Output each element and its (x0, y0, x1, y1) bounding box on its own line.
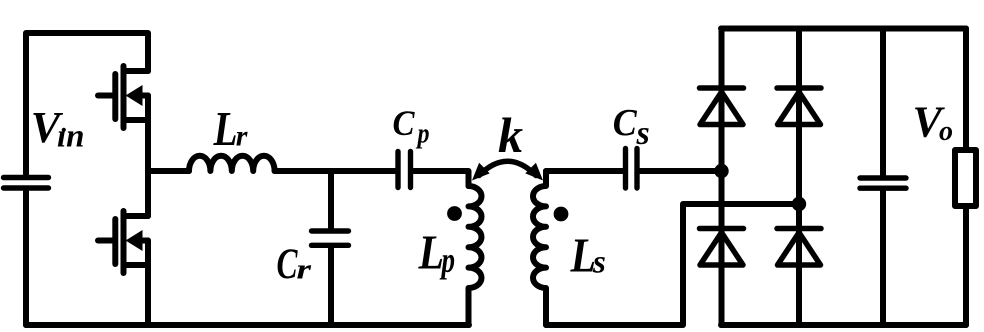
polarity dot Ls (554, 207, 569, 222)
label Lr (213, 101, 248, 156)
diode D2 (777, 88, 821, 125)
wire: Vin positive rail to half-bridge top (26, 33, 148, 174)
capacitor Co plates (860, 178, 906, 188)
svg-text:r: r (297, 254, 312, 286)
svg-text:ın: ın (57, 119, 85, 155)
wire: switch node to Lr (148, 168, 189, 174)
svg-text:C: C (613, 102, 638, 144)
junction dot node A (714, 164, 728, 178)
inductor Lp (primary winding) (469, 186, 482, 325)
capacitor Cs plates (626, 149, 638, 189)
label Cp (393, 103, 430, 150)
wire: rectifier top rail (721, 26, 966, 32)
wire: Vin negative to bottom rail (23, 191, 29, 325)
transistor Q2 (low side) (98, 211, 148, 273)
inductor Ls (secondary winding) (533, 171, 546, 325)
wire: Cp to Lp (413, 171, 469, 186)
svg-text:k: k (498, 107, 523, 163)
wire: output capacitor bottom lead (880, 191, 886, 325)
wire: load top lead (963, 29, 969, 151)
wire: diode leg 1 (719, 29, 725, 326)
capacitor Cp plates (398, 152, 411, 188)
svg-text:L: L (418, 225, 444, 280)
svg-text:s: s (636, 115, 650, 152)
wire: rectifier bottom rail (721, 322, 966, 328)
label Lp (418, 225, 455, 281)
svg-text:p: p (439, 240, 455, 280)
capacitor Cr plates (312, 231, 349, 245)
wire: Cr bottom lead (328, 249, 334, 326)
svg-text:r: r (236, 120, 248, 153)
label k (498, 107, 523, 163)
inductor Lr (189, 156, 275, 171)
wire: output capacitor top lead (880, 29, 886, 176)
transistor Q1 (high side) (98, 66, 148, 128)
label Ls (570, 228, 606, 283)
junction dot node B (792, 197, 806, 211)
polarity dot Lp (447, 206, 462, 221)
label Cs (613, 102, 650, 152)
svg-text:C: C (277, 241, 299, 288)
svg-text:s: s (592, 245, 606, 281)
capacitor: Vin source plates (4, 178, 49, 189)
wire: Ls to Cs (546, 168, 623, 174)
svg-text:L: L (213, 101, 238, 156)
load resistor (955, 150, 976, 206)
label Vin (31, 103, 85, 155)
diode D4 (777, 229, 821, 266)
wire: primary bottom rail (26, 322, 469, 328)
svg-text:p: p (415, 118, 429, 150)
wire: Cs to rectifier node A (640, 168, 722, 174)
diode D3 (700, 229, 744, 266)
svg-text:C: C (393, 103, 416, 143)
wire: load bottom lead (963, 206, 969, 325)
svg-text:o: o (939, 116, 953, 147)
wire: switch node between Q1 and Q2 (145, 96, 151, 217)
wire: Cr top lead (328, 171, 334, 228)
diode D1 (700, 88, 744, 125)
wire: Q2 source to bottom rail (145, 241, 151, 326)
wire: Lr to Cp (275, 168, 395, 174)
label Vo (913, 98, 954, 148)
wire: diode leg 2 (796, 29, 802, 326)
label Cr (277, 241, 312, 288)
coupling arrow k (472, 161, 543, 180)
wire: secondary return (node B to Ls bottom) (546, 204, 799, 325)
